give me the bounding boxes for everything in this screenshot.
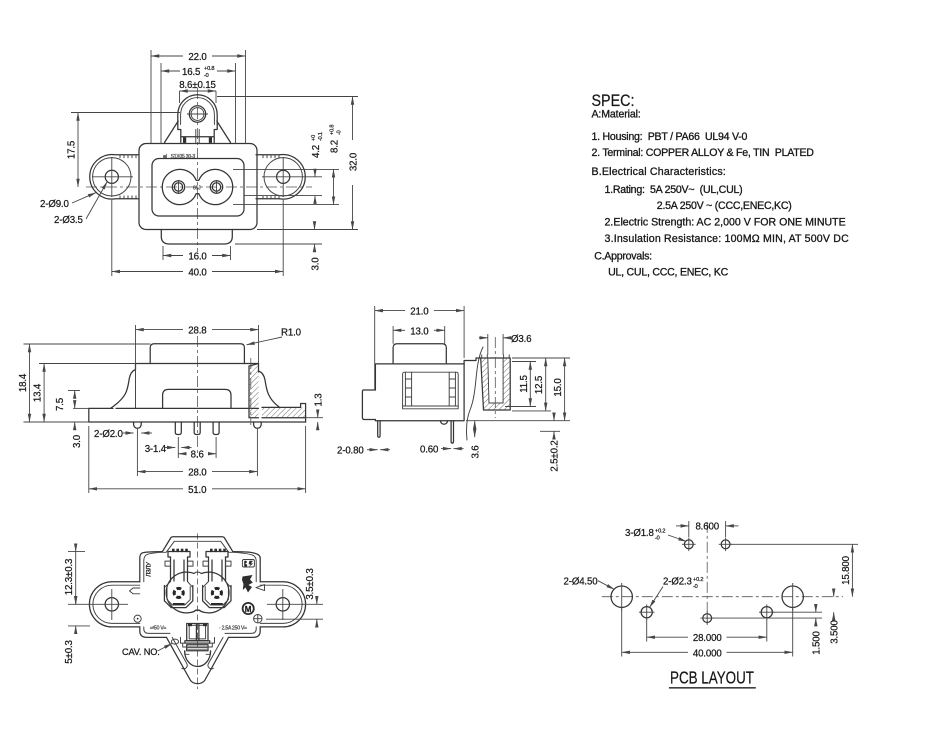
dim 15.800 extension	[731, 543, 858, 545]
dim 8.600 extension	[688, 521, 690, 537]
tower centerline	[494, 337, 496, 418]
svg-text:A:Material:: A:Material:	[592, 109, 641, 121]
svg-text:-0: -0	[693, 584, 698, 590]
svg-text:B.Electrical Characteristics:: B.Electrical Characteristics:	[592, 166, 726, 178]
figure-8 socket cutout	[162, 169, 232, 204]
peg bump bottom	[441, 421, 448, 425]
right strap cap	[206, 552, 228, 558]
dim 12.5 extension	[512, 410, 551, 412]
svg-text:13.0: 13.0	[410, 326, 429, 337]
dim 7.5	[74, 391, 76, 397]
svg-text:17.5: 17.5	[67, 141, 78, 159]
svg-text:-0: -0	[655, 536, 660, 542]
small screw circle	[254, 615, 262, 623]
ground hole inner	[191, 108, 204, 121]
dim 15.0	[564, 358, 566, 371]
dim 3.0	[74, 422, 76, 430]
svg-text:2.5A 250V ~ (CCC,ENEC,KC): 2.5A 250V ~ (CCC,ENEC,KC)	[657, 200, 792, 212]
right ear inner rim	[264, 158, 302, 196]
inner recess rect	[403, 372, 459, 409]
dim 11.5 extension	[512, 361, 536, 363]
centerline vertical	[197, 88, 199, 252]
right body edge	[258, 364, 260, 373]
dim 40.0 extension	[111, 200, 113, 276]
left ear inner rim	[93, 158, 131, 196]
dim Ø3.6 extension	[487, 334, 489, 355]
CAV box corner marks	[188, 624, 192, 626]
svg-text:PCB LAYOUT: PCB LAYOUT	[670, 668, 754, 688]
right ear serrations	[263, 155, 279, 199]
dim 28.0	[137, 471, 183, 473]
svg-text:-0.1: -0.1	[318, 132, 324, 141]
left strap cap	[168, 552, 190, 558]
centerline horizontal	[602, 596, 843, 598]
dim 5	[75, 597, 77, 604]
left screw cup	[164, 586, 192, 608]
left screw pinwheel	[173, 587, 185, 599]
svg-text:28.0: 28.0	[188, 468, 207, 479]
svg-text:≈²50 V≈: ≈²50 V≈	[150, 626, 166, 632]
svg-text:40.0: 40.0	[188, 268, 207, 279]
ground tower outer	[481, 358, 511, 410]
dim 16.0 extension	[162, 246, 164, 260]
svg-text:16.5: 16.5	[182, 67, 200, 78]
right mounting peg	[254, 422, 262, 428]
dim 1.3 extension	[306, 417, 323, 419]
dim 28.8	[136, 329, 184, 331]
svg-text:18.4: 18.4	[18, 373, 29, 392]
dim 3.500	[833, 590, 835, 597]
left protrusion	[362, 390, 375, 420]
left neck chamfers	[165, 582, 193, 588]
top block	[150, 344, 244, 364]
dim 8.2 extension	[233, 168, 339, 170]
dim 51.0	[89, 488, 183, 490]
terminal pin 1	[175, 422, 181, 435]
dim 40.000	[622, 651, 688, 653]
dim 40.0	[112, 271, 183, 273]
dim 16.0	[163, 255, 183, 257]
dim 1.3	[317, 410, 319, 418]
svg-text:+0.8: +0.8	[330, 125, 336, 135]
svg-text:UL, CUL, CCC, ENEC, KC: UL, CUL, CCC, ENEC, KC	[608, 266, 728, 278]
left strap	[171, 557, 188, 581]
right cavity	[194, 572, 229, 613]
dim 3.0	[314, 222, 316, 230]
approval circled mark	[243, 603, 254, 614]
dim 3.0 extension	[235, 243, 322, 245]
svg-text:+0.8: +0.8	[204, 66, 214, 72]
dim 13.4 extension	[39, 363, 136, 365]
small hole top-right	[721, 540, 730, 549]
flange bottom full	[89, 421, 306, 423]
right ear	[260, 582, 305, 627]
triangle inner	[172, 637, 223, 668]
body left inner vertical	[135, 364, 137, 409]
hole 2.3 left	[641, 607, 652, 618]
right ear hole	[276, 598, 289, 611]
right ear outer	[256, 155, 305, 200]
label oval	[171, 639, 178, 644]
right hatched strip	[249, 364, 259, 418]
left clip tab	[130, 588, 140, 594]
svg-text:2-Ø2.0: 2-Ø2.0	[94, 429, 123, 440]
dome center legs	[195, 130, 197, 144]
dim 12.5	[545, 358, 547, 370]
svg-text:12.5: 12.5	[534, 376, 545, 394]
big hole left	[611, 586, 632, 607]
left cavity	[166, 572, 201, 613]
svg-text:■I S1X05 30-3: ■I S1X05 30-3	[163, 154, 195, 160]
dim 28.000 extension	[646, 619, 648, 642]
svg-text:15.0: 15.0	[553, 378, 564, 397]
dim 12.3	[75, 545, 77, 552]
inner recess	[152, 159, 244, 217]
dim 16.5	[161, 70, 180, 72]
svg-text:15.800: 15.800	[841, 555, 852, 584]
semicircle notch	[185, 651, 211, 667]
svg-text:1.3: 1.3	[314, 393, 325, 406]
centerline	[197, 534, 199, 690]
dim 3.6	[474, 421, 476, 426]
svg-text:1.Rating: 5A 250V~ (UL,CUL): 1.Rating: 5A 250V~ (UL,CUL)	[605, 184, 743, 196]
dim 12.3 extension	[68, 551, 85, 553]
left slot	[405, 372, 411, 406]
centerline horizontal through pins	[86, 186, 312, 188]
dim 4.2	[314, 171, 316, 178]
terminal pin 3	[213, 422, 219, 435]
dim 1.500 extension	[773, 611, 823, 613]
left ear serrations	[120, 155, 136, 199]
svg-text:+0.2: +0.2	[693, 577, 703, 583]
top block	[393, 344, 446, 364]
svg-text:16.0: 16.0	[188, 252, 207, 263]
body outline	[139, 144, 257, 230]
pin L outer	[172, 181, 184, 193]
svg-text:11.5: 11.5	[519, 375, 530, 393]
dim 13.0 extension	[392, 326, 394, 344]
funnel diagonal right	[217, 121, 231, 143]
left strap side lugs	[165, 561, 171, 566]
svg-text:5±0.3: 5±0.3	[64, 640, 75, 663]
ground dome inner arch	[181, 98, 215, 125]
dim 28.000	[647, 636, 688, 638]
dim 1.500	[815, 605, 817, 612]
dim 22.0	[151, 55, 183, 57]
svg-text:-0: -0	[337, 130, 343, 135]
dim 15.0 extension	[512, 357, 570, 359]
svg-text:2. Terminal: COPPER ALLOY & Fe: 2. Terminal: COPPER ALLOY & Fe, TIN PLAT…	[592, 147, 815, 159]
body inner wall	[144, 541, 256, 633]
CAV box outer	[187, 624, 208, 641]
left ear hole	[105, 598, 118, 611]
right screw cup	[203, 586, 231, 608]
dim 21.0	[375, 310, 405, 312]
svg-text:66J: 66J	[193, 186, 201, 192]
svg-text:8.600: 8.600	[695, 522, 719, 533]
pin L inner	[174, 183, 182, 191]
dim 32.0 extension	[217, 96, 358, 98]
pin R inner	[212, 183, 220, 191]
dim 3.5	[316, 597, 318, 604]
left ear cross	[92, 176, 133, 178]
dim 17.5 extension	[71, 112, 180, 114]
big hole right	[782, 586, 803, 607]
svg-text:40.000: 40.000	[693, 648, 722, 659]
svg-text:3-Ø1.8: 3-Ø1.8	[625, 528, 654, 539]
left pin	[378, 421, 380, 438]
dim 16.5 extension lines	[160, 63, 162, 144]
svg-text:8.2: 8.2	[330, 140, 341, 153]
right slot	[449, 372, 455, 406]
dim 2.5±0.2 extension	[540, 430, 560, 432]
right screw bottom shadow	[211, 603, 223, 605]
svg-text:13.4: 13.4	[33, 383, 44, 402]
svg-text:M: M	[245, 605, 252, 614]
svg-text:2-0.80: 2-0.80	[337, 446, 364, 457]
dim 17.5	[77, 113, 79, 131]
svg-text:ЛЗЛУ: ЛЗЛУ	[146, 561, 153, 577]
svg-text:4.2: 4.2	[311, 145, 322, 158]
dim 3.5 extension	[299, 603, 323, 605]
ground hole outer	[189, 106, 205, 122]
triangle outer	[167, 637, 229, 683]
cavity mid arcs	[194, 572, 201, 574]
left ear inner	[93, 585, 140, 623]
svg-text:28.8: 28.8	[188, 326, 206, 337]
right ear inner	[260, 585, 302, 623]
centerline	[196, 336, 198, 458]
svg-text:2-Ø3.5: 2-Ø3.5	[54, 215, 83, 226]
svg-text:Ø3.6: Ø3.6	[511, 334, 531, 345]
svg-text:3.Insulation Resistance: 100MΩ: 3.Insulation Resistance: 100MΩ MIN, AT 5…	[605, 233, 850, 245]
dim 21.0 extension	[374, 306, 376, 390]
dim 22.0 extension lines	[150, 50, 152, 144]
svg-text:2.Electric Strength: AC 2,000: 2.Electric Strength: AC 2,000 V FOR ONE …	[605, 217, 846, 229]
tower bore	[488, 358, 503, 403]
svg-text:-0: -0	[204, 73, 209, 79]
dim 18.4	[29, 344, 31, 358]
dim 5 extension	[68, 603, 96, 605]
tower hatch left	[481, 358, 511, 410]
left screw bottom shadow	[173, 603, 185, 605]
flange left	[89, 408, 113, 422]
svg-text:22.0: 22.0	[188, 52, 207, 63]
ground hole cross	[187, 113, 208, 115]
right ear hole	[277, 170, 290, 183]
svg-text:· 2.5A 250 V≈: · 2.5A 250 V≈	[219, 626, 247, 632]
dim 4.2 extension	[244, 195, 322, 197]
recess bottom line	[403, 405, 459, 407]
left ear outer	[90, 155, 139, 200]
dim 40.000 extension	[621, 608, 623, 657]
tower step link	[464, 358, 481, 364]
main body	[375, 364, 464, 421]
dome base feet marks	[183, 137, 186, 143]
svg-text:3-1.4: 3-1.4	[145, 444, 167, 455]
right pin	[451, 421, 453, 443]
svg-text:28.000: 28.000	[693, 633, 722, 644]
dim 13.4	[43, 364, 45, 377]
approval mark S box	[242, 560, 254, 568]
dim 18.4 extension	[24, 343, 151, 345]
pin cross ticks	[178, 180, 180, 194]
dim 51.0 extension	[88, 426, 90, 493]
svg-text:1.500: 1.500	[812, 630, 823, 654]
right ear cross	[262, 176, 322, 178]
right wing	[259, 371, 280, 407]
svg-text:8.6: 8.6	[191, 450, 204, 461]
small rivet circle	[134, 615, 141, 622]
right strap	[209, 557, 226, 581]
small hole top-left	[684, 540, 693, 549]
svg-text:12.3±0.3: 12.3±0.3	[64, 559, 75, 595]
bottom tab	[161, 230, 232, 245]
right clip tab	[256, 585, 265, 591]
terminal pin 2	[194, 422, 200, 435]
svg-text:SPEC:: SPEC:	[592, 91, 635, 110]
left ear hole	[105, 170, 118, 183]
dim 8.6	[178, 453, 186, 455]
dim 8.2	[333, 169, 335, 176]
svg-text:7.5: 7.5	[55, 398, 66, 411]
break line curve	[466, 347, 483, 440]
dim 8.6 extension	[177, 437, 179, 458]
funnel diagonal left	[165, 121, 179, 143]
svg-text:3.6: 3.6	[471, 445, 482, 458]
pin R outer	[210, 181, 222, 193]
svg-text:1. Housing: PBT / PA66 UL94: 1. Housing: PBT / PA66 UL94 V-0	[592, 131, 748, 143]
svg-text:21.0: 21.0	[410, 307, 429, 318]
svg-text:51.0: 51.0	[188, 485, 207, 496]
centerline vertical	[706, 522, 708, 624]
dim 15.800	[851, 544, 853, 557]
small hole bottom	[703, 614, 712, 623]
svg-text:8.6±0.15: 8.6±0.15	[179, 80, 215, 91]
step pedestal	[181, 637, 215, 654]
dim 2.5±0.2	[553, 413, 555, 421]
CAV bottom bar2	[187, 645, 208, 651]
inner recess	[163, 389, 231, 408]
dim 32.0	[352, 97, 354, 141]
right strap side lugs	[203, 561, 209, 566]
svg-text:R1.0: R1.0	[281, 328, 302, 339]
tower cap ticks	[482, 355, 510, 358]
CAV box divider	[195, 625, 197, 641]
mid block left edge + wing	[111, 364, 136, 409]
svg-text:2-Ø9.0: 2-Ø9.0	[40, 199, 69, 210]
svg-text:2-Ø2.3: 2-Ø2.3	[663, 577, 692, 588]
dim 8.600	[676, 525, 689, 527]
right neck chamfers	[203, 582, 231, 588]
svg-text:2-Ø4.50: 2-Ø4.50	[564, 577, 599, 588]
dim 7.5 extension	[68, 390, 80, 392]
right screw pinwheel	[211, 587, 223, 599]
dim 11.5	[529, 362, 531, 373]
svg-text:+0.2: +0.2	[655, 529, 665, 535]
svg-text:C.Approvals:: C.Approvals:	[594, 250, 652, 262]
dim 28.8 extension	[135, 325, 137, 364]
dome base	[178, 125, 217, 144]
svg-text:CAV. NO.: CAV. NO.	[122, 647, 160, 657]
svg-text:32.0: 32.0	[349, 152, 360, 171]
ground dome outer arch	[178, 95, 217, 125]
left mounting peg	[134, 422, 142, 428]
svg-text:3.0: 3.0	[311, 257, 322, 271]
svg-text:2.5±0.2: 2.5±0.2	[550, 440, 561, 471]
svg-text:3.0: 3.0	[72, 434, 83, 448]
dim 28.0 extension	[136, 428, 138, 476]
svg-text:3.500: 3.500	[829, 619, 840, 643]
right strip section line	[250, 358, 252, 425]
right L-bracket bar	[262, 404, 306, 423]
dim Ø3.6	[479, 337, 488, 339]
svg-text:3.5±0.3: 3.5±0.3	[305, 568, 316, 599]
mid block top	[136, 363, 259, 365]
dim 13.0	[393, 329, 405, 331]
svg-text:+0: +0	[311, 135, 317, 141]
CAV bottom bar1	[185, 641, 210, 643]
body bottom between wings	[116, 407, 259, 409]
left ear	[89, 582, 139, 627]
approval eagle mark	[242, 575, 253, 593]
hole 2.3 right	[761, 607, 772, 618]
body outline outer	[162, 537, 232, 552]
svg-text:0.60: 0.60	[420, 445, 439, 456]
